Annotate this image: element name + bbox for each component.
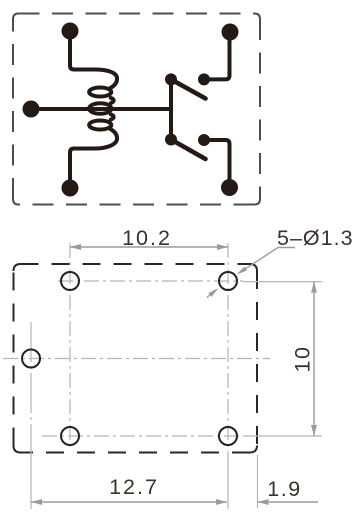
- dimension 1.9: [258, 499, 319, 505]
- svg-text:1.9: 1.9: [267, 477, 301, 501]
- hole top-left: [61, 272, 79, 290]
- center line horizontal y=281: [58, 280, 243, 282]
- hole top-right: [219, 272, 237, 290]
- center line horizontal y=358.5: [3, 358, 270, 360]
- svg-text:12.7: 12.7: [109, 475, 159, 499]
- extension line x=257.5: [257, 455, 259, 508]
- coil L1: [70, 31, 117, 188]
- svg-text:10: 10: [291, 346, 315, 373]
- leader 5-d1.3: [207, 248, 295, 298]
- wire: top contact to terminal 6: [204, 32, 230, 79]
- wire: bottom contact to terminal 8: [204, 140, 230, 188]
- pivot dot bottom: [165, 134, 177, 146]
- center line vertical x=228: [227, 243, 229, 455]
- contact dot bottom: [198, 134, 210, 146]
- svg-text:5–Ø1.3: 5–Ø1.3: [277, 226, 354, 250]
- terminal dot: coil top: [62, 23, 79, 40]
- schematic dashed border: [13, 14, 260, 205]
- center line vertical x=31: [30, 322, 32, 455]
- terminal dot: bottom right: [221, 179, 238, 196]
- armature bar: [169, 79, 173, 140]
- hole bottom-left: [61, 427, 79, 445]
- pivot dot top: [165, 73, 177, 85]
- footprint outline (dashed): [14, 264, 258, 453]
- center line horizontal y=436: [42, 435, 243, 437]
- hole bottom-right: [219, 427, 237, 445]
- terminal dot: coil common left: [23, 101, 40, 118]
- svg-text:10.2: 10.2: [122, 226, 172, 250]
- hole middle-left: [22, 350, 40, 368]
- dimension 10 (vertical): [311, 282, 317, 436]
- terminal dot: coil bottom: [62, 180, 79, 197]
- dimension 10.2: [70, 244, 228, 250]
- wire: coil common to armature: [31, 107, 171, 111]
- contact dot top: [198, 73, 210, 85]
- switch blade S1: [171, 79, 206, 98]
- dimension 12.7: [31, 499, 227, 505]
- switch blade S2: [171, 140, 206, 160]
- terminal dot: top right: [222, 24, 239, 41]
- center line vertical x=70: [69, 243, 71, 450]
